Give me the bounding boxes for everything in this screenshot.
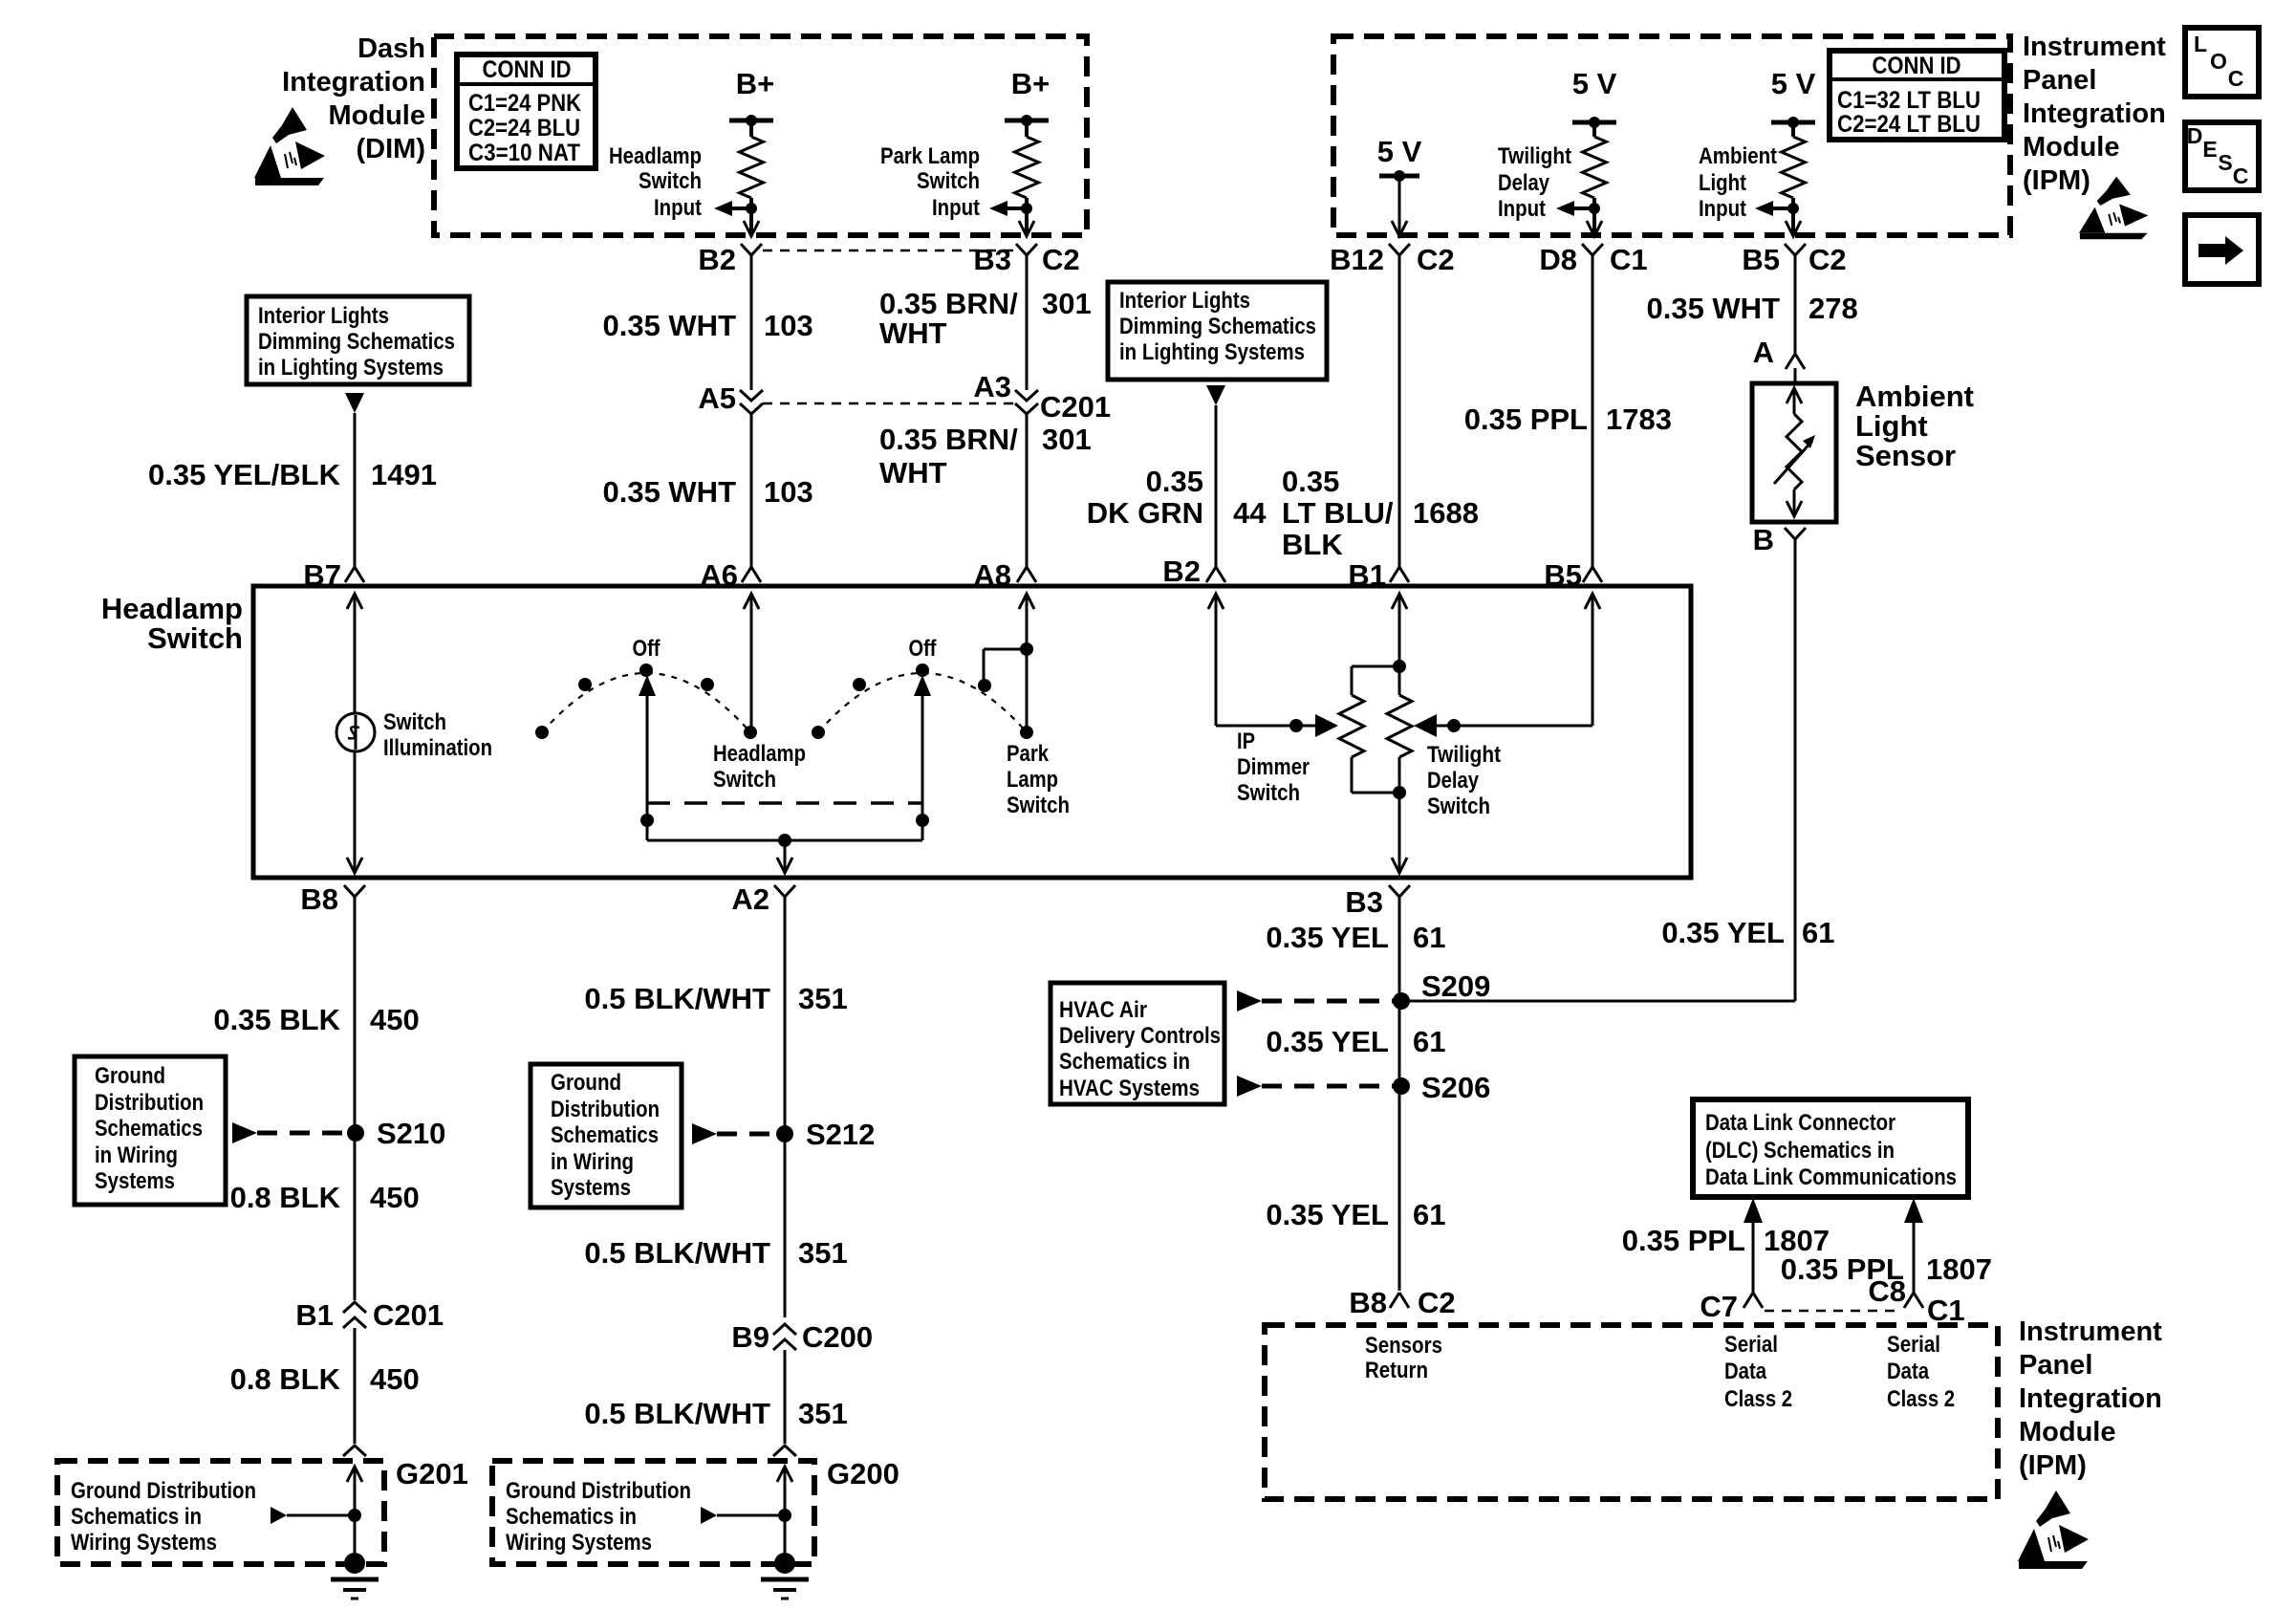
wire 0.35 YEL 61 from sensor B down to splice S209	[1401, 547, 1795, 1001]
svg-text:0.35 PPL: 0.35 PPL	[1464, 402, 1588, 436]
svg-text:Delay: Delay	[1498, 170, 1550, 196]
svg-text:Serial: Serial	[1887, 1332, 1940, 1358]
svg-text:Data Link Connector: Data Link Connector	[1705, 1110, 1895, 1136]
svg-text:A3: A3	[973, 370, 1011, 403]
connector pin C7 into IPM	[1700, 1290, 1763, 1323]
svg-text:G201: G201	[396, 1457, 468, 1490]
svg-text:0.5 BLK/WHT: 0.5 BLK/WHT	[584, 1397, 770, 1430]
svg-text:D: D	[2187, 123, 2203, 148]
label 0.5 BLK/WHT 351 first	[584, 982, 847, 1015]
wire park lamp stub exits DIM with arrowhead	[1019, 221, 1034, 236]
ground block G201 dashed box	[57, 1457, 468, 1564]
svg-text:B8: B8	[300, 882, 338, 916]
input arrow Ambient Light Input	[1699, 143, 1793, 222]
svg-text:Module: Module	[329, 100, 426, 131]
dashed reference arrow to splice S210	[232, 1122, 348, 1143]
arrow into dimmer resistor from right	[1414, 714, 1437, 737]
connector pin B2 out of DIM	[698, 243, 762, 276]
svg-text:1688: 1688	[1413, 496, 1479, 530]
svg-text:1783: 1783	[1606, 402, 1672, 436]
label 0.8 BLK 450 third	[230, 1362, 420, 1396]
label 0.35 LT BLU/BLK 1688	[1282, 465, 1479, 561]
callout box Interior Lights Dimming Schematics in Lighting Systems (left)	[247, 296, 469, 384]
label 0.35 YEL 61 second	[1266, 1025, 1445, 1058]
svg-text:in Wiring: in Wiring	[95, 1142, 178, 1168]
connector pin A of ambient light sensor	[1753, 336, 1805, 383]
ESD warning symbol near DIM label	[254, 107, 325, 185]
svg-text:(IPM): (IPM)	[2023, 165, 2090, 196]
svg-text:61: 61	[1802, 916, 1834, 949]
svg-text:Park: Park	[1007, 741, 1050, 767]
wire A8 feed to park lamp rotary pivot with branch	[984, 594, 1034, 732]
connector pin B5 C2 out of IPM	[1742, 243, 1846, 276]
input arrow Twilight Delay Input	[1498, 143, 1594, 222]
svg-text:IP: IP	[1237, 729, 1255, 754]
wire 0.35 WHT 278 from IPM to ambient light sensor	[1794, 263, 1797, 354]
svg-text:103: 103	[764, 475, 813, 509]
svg-text:Switch: Switch	[1427, 794, 1490, 819]
connector C201 dashed line between A5 and A3	[763, 402, 1013, 405]
svg-text:in Wiring: in Wiring	[551, 1149, 634, 1175]
svg-text:0.35 WHT: 0.35 WHT	[602, 309, 736, 342]
svg-text:0.35 YEL: 0.35 YEL	[1266, 1198, 1389, 1231]
svg-text:450: 450	[370, 1181, 420, 1214]
LOC reference box	[2185, 28, 2259, 97]
svg-text:Switch: Switch	[917, 168, 980, 194]
callout box Ground Distribution Schematics in Wiring Systems (left)	[75, 1056, 226, 1205]
svg-text:1807: 1807	[1926, 1252, 1992, 1286]
svg-text:B3: B3	[973, 243, 1011, 276]
svg-text:Serial: Serial	[1724, 1332, 1778, 1358]
connector into ground block G201	[343, 1446, 366, 1456]
svg-text:Ground Distribution: Ground Distribution	[71, 1478, 256, 1504]
wire 0.35 WHT 103 upper segment	[750, 263, 753, 390]
svg-text:C1: C1	[1927, 1294, 1965, 1327]
splice S209	[1393, 969, 1490, 1010]
svg-text:BLK: BLK	[1282, 528, 1343, 561]
text Ground Distribution Schematics in Wiring Systems inside G200	[506, 1478, 691, 1556]
wire 0.35 BRN/WHT 301 upper segment	[1026, 263, 1029, 390]
label 0.35 BLK 450	[213, 1003, 419, 1036]
svg-text:Module: Module	[2019, 1417, 2116, 1447]
svg-text:Wiring Systems: Wiring Systems	[71, 1530, 217, 1556]
svg-text:Instrument: Instrument	[2019, 1316, 2162, 1347]
wire 0.35 LT BLU/BLK 1688 from IPM to headlamp switch B1	[1398, 263, 1401, 567]
wire ambient stub exits IPM with arrowhead	[1786, 221, 1801, 236]
svg-text:B9: B9	[731, 1320, 769, 1354]
svg-text:450: 450	[370, 1362, 420, 1396]
svg-text:S: S	[2218, 150, 2232, 175]
ESD warning symbol near IPM label top right	[2079, 177, 2149, 240]
switch park lamp rotary contact arc	[812, 636, 1033, 739]
svg-text:0.8 BLK: 0.8 BLK	[230, 1362, 341, 1396]
svg-text:Distribution: Distribution	[95, 1090, 204, 1116]
svg-text:Integration: Integration	[2019, 1383, 2162, 1414]
wire 0.5 BLK/WHT 351 segment 1	[784, 908, 787, 1317]
input arrow Park Lamp Switch Input	[880, 143, 1027, 221]
label 0.35 WHT 103 lower	[602, 475, 812, 509]
svg-text:WHT: WHT	[879, 456, 947, 490]
label 0.35 WHT 278	[1646, 292, 1857, 325]
splice S206	[1393, 1071, 1490, 1104]
svg-text:in Lighting Systems: in Lighting Systems	[258, 355, 444, 381]
connector A5 C201 inline	[698, 381, 763, 415]
label Serial Data Class 2 left	[1724, 1332, 1792, 1412]
svg-text:5 V: 5 V	[1572, 67, 1617, 100]
svg-text:CONN ID: CONN ID	[483, 56, 572, 83]
wire 0.8 BLK 450 segment 3	[354, 1328, 357, 1444]
module box DIM dashed outline	[434, 36, 1087, 235]
svg-text:B2: B2	[1162, 555, 1201, 588]
wire 0.35 BRN/WHT 301 lower segment	[1026, 414, 1029, 567]
svg-text:Headlamp: Headlamp	[713, 741, 806, 767]
svg-text:C201: C201	[373, 1298, 444, 1332]
svg-text:B2: B2	[698, 243, 736, 276]
callout box Ground Distribution Schematics in Wiring Systems (middle)	[531, 1064, 682, 1207]
svg-text:Sensor: Sensor	[1855, 439, 1956, 472]
svg-text:Park Lamp: Park Lamp	[880, 143, 980, 169]
wire 0.35 YEL 61 segment 1	[1398, 908, 1401, 1291]
svg-text:(IPM): (IPM)	[2019, 1450, 2087, 1481]
label Instrument Panel Integration Module (IPM) bottom right	[2019, 1316, 2162, 1481]
wire serial data C1 to DLC with arrow	[1904, 1198, 1923, 1293]
svg-text:44: 44	[1233, 496, 1267, 530]
connector pin B8 C2 into IPM	[1349, 1286, 1455, 1319]
svg-text:Light: Light	[1699, 170, 1746, 196]
svg-text:S209: S209	[1421, 969, 1490, 1003]
connector pin B8 out of headlamp switch	[300, 882, 365, 916]
svg-text:Sensors: Sensors	[1365, 1333, 1442, 1359]
svg-text:Interior Lights: Interior Lights	[258, 303, 389, 329]
svg-text:C201: C201	[1040, 390, 1111, 424]
label Twilight Delay Switch	[1427, 742, 1501, 819]
label 0.35 YEL/BLK 1491	[148, 458, 437, 491]
connector pin B5 into headlamp switch	[1544, 558, 1602, 592]
svg-text:Illumination: Illumination	[383, 735, 492, 761]
svg-text:Data Link Communications: Data Link Communications	[1705, 1164, 1957, 1190]
callout box Interior Lights Dimming Schematics in Lighting Systems (right)	[1108, 282, 1327, 380]
svg-text:Dimming Schematics: Dimming Schematics	[258, 329, 455, 355]
svg-text:(DLC) Schematics in: (DLC) Schematics in	[1705, 1138, 1895, 1164]
svg-text:Switch: Switch	[713, 767, 776, 793]
connector into ground block G200	[773, 1446, 796, 1456]
wire 0.35 BLK 450 segment 1	[354, 908, 357, 1300]
svg-text:L: L	[2194, 32, 2207, 56]
svg-text:A2: A2	[731, 882, 769, 916]
svg-text:Twilight: Twilight	[1427, 742, 1501, 768]
label Ambient Light Sensor	[1855, 380, 1974, 472]
svg-text:Headlamp: Headlamp	[609, 143, 702, 169]
wire B7 illumination feed inside switch (double arrow)	[347, 594, 362, 873]
module box IPM dashed outline	[1333, 36, 2010, 235]
wire B3 output of dimmer bridge	[1392, 793, 1407, 873]
svg-text:Switch: Switch	[383, 709, 446, 735]
arrow into dimmer resistor from left	[1315, 714, 1338, 737]
svg-text:B12: B12	[1330, 243, 1384, 276]
connector pin B12 C2 out of IPM	[1330, 243, 1455, 276]
lamp switch illumination	[336, 709, 492, 761]
label 0.35 PPL 1807 right	[1781, 1252, 1992, 1286]
connector pin A8 into headlamp switch	[973, 558, 1036, 592]
svg-text:351: 351	[798, 1236, 848, 1270]
switch headlamp rotary contact arc	[535, 636, 757, 739]
svg-text:0.35 BRN/: 0.35 BRN/	[879, 423, 1018, 456]
svg-text:61: 61	[1413, 1025, 1445, 1058]
ESD warning symbol near IPM label bottom right	[2018, 1490, 2089, 1569]
svg-text:5 V: 5 V	[1377, 135, 1422, 168]
svg-text:LT BLU/: LT BLU/	[1282, 496, 1394, 530]
svg-text:C: C	[2228, 66, 2244, 91]
label 0.5 BLK/WHT 351 second	[584, 1236, 847, 1270]
svg-text:(DIM): (DIM)	[357, 134, 425, 164]
svg-text:5 V: 5 V	[1771, 67, 1816, 100]
svg-text:Ambient: Ambient	[1699, 143, 1777, 169]
svg-text:Ground: Ground	[95, 1063, 165, 1089]
svg-text:C7: C7	[1700, 1290, 1738, 1323]
dashed reference arrow to splice S206	[1237, 1076, 1394, 1097]
svg-text:301: 301	[1042, 287, 1092, 320]
headlamp switch movable contact arrow	[639, 675, 656, 840]
svg-text:B5: B5	[1742, 243, 1780, 276]
resistor ambient-light-input pull-up to 5V in IPM	[1771, 67, 1816, 234]
svg-text:C200: C200	[802, 1320, 873, 1354]
svg-text:C2=24 LT BLU: C2=24 LT BLU	[1837, 111, 1981, 138]
svg-text:Twilight: Twilight	[1498, 143, 1571, 169]
connector ID table CONN ID C1=32 LT BLU C2=24 LT BLU	[1830, 51, 2004, 140]
connector B9 C200 inline	[731, 1320, 873, 1354]
wire B2 dimmer feed inside switch	[1208, 594, 1326, 732]
ground symbol G201	[331, 1553, 379, 1599]
connector pin C1 into IPM with C8 label	[1868, 1274, 1964, 1327]
svg-text:Headlamp: Headlamp	[101, 592, 243, 625]
input arrow Headlamp Switch Input	[609, 143, 751, 221]
svg-text:0.35 YEL: 0.35 YEL	[1266, 1025, 1389, 1058]
svg-text:Schematics in: Schematics in	[1059, 1049, 1190, 1075]
svg-text:B+: B+	[1011, 67, 1051, 100]
svg-text:Delivery Controls: Delivery Controls	[1059, 1023, 1221, 1049]
svg-text:Schematics: Schematics	[95, 1116, 203, 1142]
svg-text:Input: Input	[932, 195, 980, 221]
resistor twilight-delay-input pull-up to 5V in IPM	[1572, 67, 1617, 234]
svg-text:Switch: Switch	[639, 168, 702, 194]
resistor park-lamp-switch-input pull-up to B+ in DIM	[1005, 67, 1050, 234]
svg-text:0.35 WHT: 0.35 WHT	[602, 475, 736, 509]
svg-text:Data: Data	[1724, 1359, 1767, 1384]
svg-text:0.35: 0.35	[1282, 465, 1339, 498]
svg-text:B+: B+	[736, 67, 775, 100]
label 0.35 PPL 1807 left	[1622, 1224, 1830, 1257]
svg-text:Return: Return	[1365, 1358, 1428, 1383]
svg-text:C2: C2	[1418, 1286, 1456, 1319]
svg-text:Class 2: Class 2	[1887, 1386, 1955, 1412]
connector pin B7 into headlamp switch	[303, 558, 364, 592]
svg-text:103: 103	[764, 309, 813, 342]
svg-text:0.35: 0.35	[1146, 465, 1203, 498]
svg-text:Switch: Switch	[147, 621, 243, 655]
label Headlamp Switch	[101, 592, 243, 655]
5V reference stub for sensor return B12 in IPM	[1377, 135, 1422, 236]
wire B2 stub exits DIM with arrowhead	[744, 221, 759, 236]
svg-text:0.8 BLK: 0.8 BLK	[230, 1181, 341, 1214]
label 0.35 YEL 61 third	[1266, 1198, 1445, 1231]
svg-text:Systems: Systems	[551, 1175, 631, 1201]
svg-text:C1=32 LT BLU: C1=32 LT BLU	[1837, 87, 1981, 114]
svg-text:351: 351	[798, 982, 848, 1015]
wire common bus to A2 output	[647, 834, 922, 873]
connector pin A2 out of headlamp switch	[731, 882, 795, 916]
svg-text:0.35 BRN/: 0.35 BRN/	[879, 287, 1018, 320]
label 0.8 BLK 450 second	[230, 1181, 420, 1214]
connector pin A6 into headlamp switch	[700, 558, 761, 592]
dashed line between C7 and C1 connectors	[1765, 1310, 1900, 1313]
connector A3 C201 inline	[973, 370, 1111, 424]
label Sensors Return	[1365, 1333, 1442, 1383]
ground block G200 dashed box	[492, 1457, 899, 1564]
svg-text:B8: B8	[1349, 1286, 1387, 1319]
svg-text:Schematics: Schematics	[551, 1122, 659, 1148]
wire and arrow inside G201	[271, 1467, 362, 1553]
svg-text:S206: S206	[1421, 1071, 1490, 1104]
svg-text:0.35 YEL/BLK: 0.35 YEL/BLK	[148, 458, 341, 491]
label 0.35 BRN/WHT 301 lower	[879, 423, 1092, 490]
svg-text:C1=24 PNK: C1=24 PNK	[468, 90, 581, 117]
svg-text:C3=10 NAT: C3=10 NAT	[468, 140, 580, 166]
svg-text:Interior Lights: Interior Lights	[1119, 288, 1250, 314]
connector B1 C201 inline	[295, 1298, 444, 1332]
svg-text:C2: C2	[1417, 243, 1455, 276]
svg-text:0.35 WHT: 0.35 WHT	[1646, 292, 1780, 325]
svg-text:0.35 YEL: 0.35 YEL	[1661, 916, 1785, 949]
svg-text:Input: Input	[1699, 196, 1746, 222]
callout box Data Link Connector (DLC) Schematics in Data Link Communications	[1693, 1099, 1968, 1197]
connector pin B1 into headlamp switch	[1348, 558, 1409, 592]
svg-text:Input: Input	[654, 195, 702, 221]
svg-text:Delay: Delay	[1427, 768, 1480, 794]
svg-text:WHT: WHT	[879, 316, 947, 350]
svg-text:Integration: Integration	[282, 67, 425, 98]
resistor headlamp-switch-input pull-up to B+ in DIM	[729, 67, 774, 234]
label 0.35 BRN/WHT 301 upper	[879, 287, 1092, 350]
label IP Dimmer Switch	[1237, 729, 1310, 806]
svg-text:Switch: Switch	[1007, 793, 1070, 818]
dashed reference arrow to splice S209	[1237, 990, 1394, 1012]
svg-text:278: 278	[1809, 292, 1858, 325]
svg-text:Schematics in: Schematics in	[506, 1504, 637, 1530]
svg-text:Lamp: Lamp	[1007, 767, 1058, 793]
svg-text:Input: Input	[1498, 196, 1546, 222]
resistor pair IP dimmer / twilight delay (parallel bridge)	[1339, 660, 1412, 799]
svg-text:HVAC Systems: HVAC Systems	[1059, 1076, 1200, 1101]
svg-text:Dimming Schematics: Dimming Schematics	[1119, 314, 1316, 339]
svg-text:A5: A5	[698, 381, 736, 415]
svg-text:S212: S212	[806, 1118, 875, 1151]
svg-text:61: 61	[1413, 1198, 1445, 1231]
DESC reference box	[2185, 122, 2259, 190]
wire 0.35 YEL/BLK 1491 from callout to headlamp switch B7	[354, 413, 357, 567]
wire twilight stub exits IPM with arrowhead	[1587, 221, 1602, 236]
wire and arrow inside G200	[701, 1467, 792, 1553]
mechanical link dashed line between switch contacts	[647, 801, 922, 805]
splice S210	[347, 1117, 445, 1150]
svg-text:Wiring Systems: Wiring Systems	[506, 1530, 652, 1556]
ground symbol G200	[761, 1553, 809, 1599]
forward arrow box	[2185, 215, 2259, 284]
svg-text:61: 61	[1413, 921, 1445, 954]
text Ground Distribution Schematics in Wiring Systems inside G201	[71, 1478, 256, 1556]
label 0.5 BLK/WHT 351 third	[584, 1397, 847, 1430]
svg-text:Module: Module	[2023, 132, 2120, 163]
svg-text:0.5 BLK/WHT: 0.5 BLK/WHT	[584, 982, 770, 1015]
svg-text:Distribution: Distribution	[551, 1097, 660, 1122]
svg-text:Off: Off	[909, 636, 938, 662]
label Headlamp Switch inside box	[713, 741, 806, 793]
label 0.35 YEL 61 first	[1266, 921, 1445, 954]
svg-text:Class 2: Class 2	[1724, 1386, 1792, 1412]
svg-text:C1: C1	[1610, 243, 1648, 276]
svg-text:0.35 PPL: 0.35 PPL	[1622, 1224, 1745, 1257]
svg-text:in Lighting Systems: in Lighting Systems	[1119, 339, 1305, 365]
svg-text:B1: B1	[295, 1298, 334, 1332]
wire 0.35 PPL 1783 from IPM to headlamp switch B5	[1592, 263, 1594, 567]
svg-text:Integration: Integration	[2023, 98, 2166, 129]
svg-text:0.5 BLK/WHT: 0.5 BLK/WHT	[584, 1236, 770, 1270]
svg-text:Ambient: Ambient	[1855, 380, 1974, 413]
svg-text:Switch: Switch	[1237, 780, 1300, 806]
module box IPM bottom dashed outline	[1265, 1325, 1998, 1499]
wire 0.35 DK GRN 44 to headlamp switch B2	[1215, 405, 1218, 567]
svg-text:A: A	[1753, 336, 1774, 369]
svg-text:Dash: Dash	[357, 33, 425, 64]
wire 0.35 WHT 103 lower segment	[750, 414, 753, 567]
svg-text:C8: C8	[1868, 1274, 1906, 1308]
connector interface dashed line between B2 and B3 (DIM connector)	[763, 250, 1013, 252]
svg-text:DK GRN: DK GRN	[1087, 496, 1203, 530]
park lamp switch movable contact arrow	[914, 675, 931, 840]
label Dash Integration Module (DIM)	[282, 33, 425, 164]
svg-text:E: E	[2202, 137, 2217, 162]
wire B1 input to dimmer bridge	[1392, 594, 1407, 667]
svg-text:CONN ID: CONN ID	[1873, 53, 1961, 79]
wire 0.5 BLK/WHT 351 segment 3	[784, 1350, 787, 1444]
svg-text:S210: S210	[377, 1117, 445, 1150]
svg-text:HVAC Air: HVAC Air	[1059, 997, 1147, 1023]
label 0.35 YEL 61 right branch	[1661, 916, 1834, 949]
svg-text:Dimmer: Dimmer	[1237, 754, 1310, 780]
svg-text:C2=24 BLU: C2=24 BLU	[468, 115, 580, 141]
label Serial Data Class 2 right	[1887, 1332, 1955, 1412]
wire serial data C7 to DLC with arrow	[1744, 1198, 1763, 1293]
dashed reference arrow to splice S212	[692, 1123, 777, 1144]
svg-text:Off: Off	[633, 636, 661, 662]
svg-text:1491: 1491	[371, 458, 437, 491]
label Park Lamp Switch inside box	[1007, 741, 1070, 818]
svg-text:301: 301	[1042, 423, 1092, 456]
connector pin B2 into headlamp switch	[1162, 555, 1225, 588]
connector ID table CONN ID C1=24 PNK C2=24 BLU C3=10 NAT	[457, 54, 596, 168]
svg-text:C: C	[2233, 163, 2249, 188]
svg-text:Data: Data	[1887, 1359, 1930, 1384]
svg-text:351: 351	[798, 1397, 848, 1430]
svg-text:Panel: Panel	[2023, 65, 2096, 96]
arrow from callout down to wire 44	[1206, 385, 1225, 405]
label 0.35 WHT 103 upper	[602, 309, 812, 342]
svg-text:C2: C2	[1042, 243, 1080, 276]
svg-text:450: 450	[370, 1003, 420, 1036]
splice S212	[776, 1118, 875, 1151]
label 0.35 PPL 1783	[1464, 402, 1672, 436]
svg-text:Panel: Panel	[2019, 1350, 2092, 1381]
wire A6 feed to headlamp rotary pivot	[744, 594, 759, 732]
